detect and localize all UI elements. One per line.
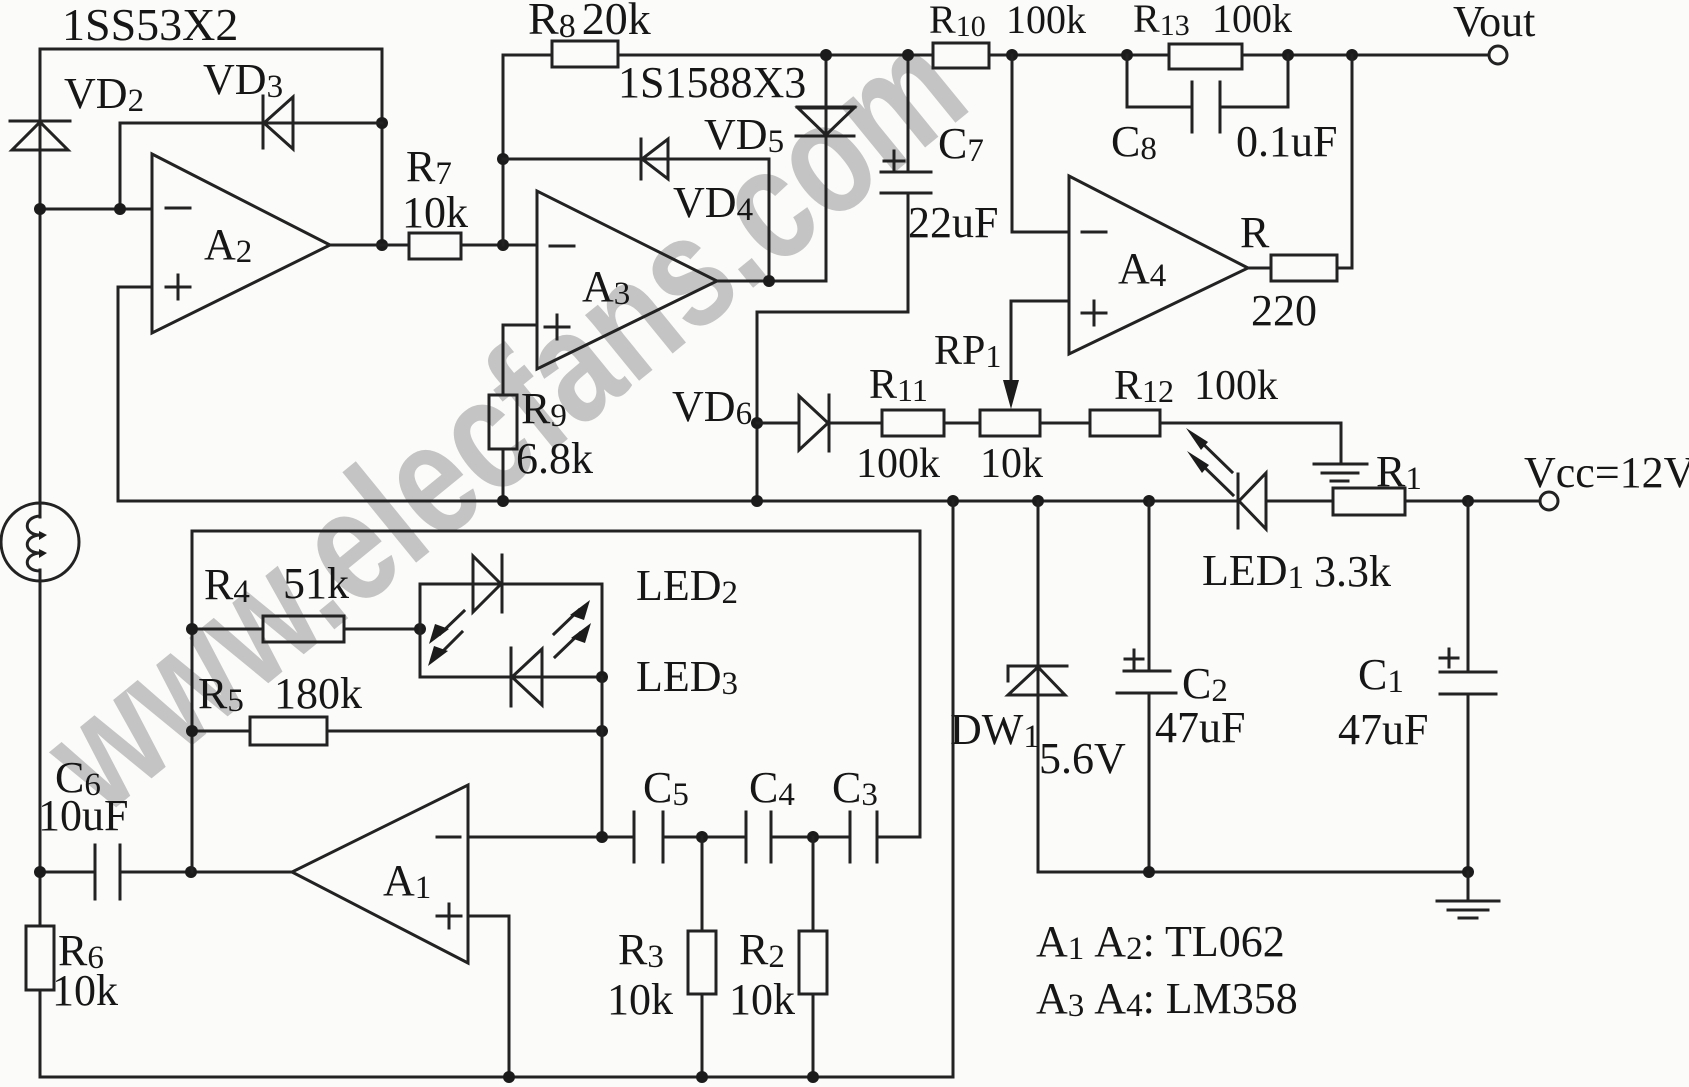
resistor R4 with wires xyxy=(192,559,420,642)
capacitor C1 xyxy=(1338,501,1496,872)
svg-text:3.3k: 3.3k xyxy=(1314,547,1391,596)
svg-text:180k: 180k xyxy=(274,669,362,718)
wire: A2 non-inverting input down to reference rail xyxy=(118,287,152,501)
capacitor C6 xyxy=(38,753,292,899)
wire: R9 to reference rail xyxy=(502,449,505,501)
wire: top feedback loop A2 xyxy=(40,49,382,245)
node: R3 bottom junction xyxy=(696,1071,708,1083)
resistor R2 with wires xyxy=(729,837,827,1077)
node: VD3 to A2- junction xyxy=(114,203,126,215)
wire: bottom return line xyxy=(40,1076,953,1079)
wire: top line R8 to R10 xyxy=(618,54,933,57)
node: C1 junction xyxy=(1462,495,1474,507)
diode VD5 with vertical wire xyxy=(796,55,855,281)
wire: analog ground line xyxy=(1038,871,1468,874)
zener DW1 xyxy=(950,501,1126,872)
svg-text:1S1588X3: 1S1588X3 xyxy=(618,58,806,107)
svg-text:10k: 10k xyxy=(729,975,795,1024)
wire: reference rail xyxy=(118,500,1238,503)
wire: VD3 branch xyxy=(120,123,382,209)
node: R5 left junction xyxy=(186,725,198,737)
capacitor C5 xyxy=(634,763,746,862)
svg-text:51k: 51k xyxy=(283,559,349,608)
node: feedback column to A1 junction xyxy=(185,866,197,878)
node: bottom return on rail xyxy=(947,495,959,507)
wire: R12 to ground stub xyxy=(1160,423,1341,464)
svg-text:100k: 100k xyxy=(1006,0,1086,42)
node: R2 bottom junction xyxy=(807,1071,819,1083)
svg-text:22uF: 22uF xyxy=(908,198,998,247)
wire: R13 to Vout xyxy=(1242,54,1489,57)
capacitor C7 xyxy=(757,55,998,312)
terminal Vcc=12V xyxy=(1524,448,1689,510)
node: R3 junction xyxy=(696,831,708,843)
node: R220 feedback junction xyxy=(1346,49,1358,61)
svg-text:10k: 10k xyxy=(402,188,468,237)
resistor R 220 xyxy=(1240,208,1337,335)
node: C5 junction with bridge column xyxy=(596,831,608,843)
svg-text:47uF: 47uF xyxy=(1338,705,1428,754)
svg-text:R: R xyxy=(1240,208,1270,257)
resistor R8 xyxy=(528,0,651,67)
wiper arrow of RP1 xyxy=(1003,380,1019,409)
wire: LED2/LED3 bridge frame xyxy=(420,584,602,677)
node: R4 right junction on LED frame xyxy=(414,623,426,635)
diode VD2 xyxy=(10,121,70,150)
ground at R12 xyxy=(1314,464,1367,481)
ground symbol main xyxy=(1437,872,1499,918)
node: C8 right junction xyxy=(1282,49,1294,61)
resistor R9 xyxy=(489,384,593,483)
node: R8/VD4 branch junction at A3 input xyxy=(497,239,509,251)
svg-text:10k: 10k xyxy=(980,441,1043,487)
svg-text:10uF: 10uF xyxy=(38,791,128,840)
op-amp A4 xyxy=(1069,176,1248,354)
node: R2 junction xyxy=(807,831,819,843)
node: VD6 anode junction xyxy=(751,417,763,429)
node: A3 output junction xyxy=(763,275,775,287)
node: DW1 on rail xyxy=(1032,495,1044,507)
node: A2 output junction xyxy=(376,239,388,251)
node: C2 on rail xyxy=(1143,495,1155,507)
wire: A4 output to R xyxy=(1248,267,1271,270)
resistor R3 with wires xyxy=(607,837,716,1077)
label LED1 3.3k xyxy=(1202,546,1391,596)
op-amp A1 xyxy=(292,785,468,963)
svg-text:1SS53X2: 1SS53X2 xyxy=(62,0,238,50)
resistor R11 xyxy=(856,362,944,487)
resistor R13 xyxy=(1133,0,1292,69)
node: C7 top junction xyxy=(902,49,914,61)
svg-text:10k: 10k xyxy=(52,966,118,1015)
svg-text:100k: 100k xyxy=(856,441,940,487)
svg-text:Vcc=12V: Vcc=12V xyxy=(1524,448,1689,497)
resistor R7 xyxy=(402,142,468,259)
svg-text:Vout: Vout xyxy=(1453,0,1535,46)
LED LED3 xyxy=(511,648,542,706)
wire: A4 inverting input branch xyxy=(1012,55,1069,232)
svg-text:220: 220 xyxy=(1251,286,1317,335)
wire: R8 left branch vertical xyxy=(503,55,552,245)
svg-text:0.1uF: 0.1uF xyxy=(1236,117,1337,166)
LED2 emission arrows xyxy=(428,611,464,666)
op-amp A3 xyxy=(537,191,717,369)
potentiometer RP1 xyxy=(934,328,1043,487)
wire: A3 non-inverting input to R9 xyxy=(503,325,537,395)
node: C1 ground junction xyxy=(1462,866,1474,878)
wire: R11 to RP1 xyxy=(944,422,980,425)
resistor R1 xyxy=(1333,447,1422,515)
node: R5 right junction xyxy=(596,725,608,737)
wire: R1 to Vcc xyxy=(1405,500,1540,503)
op-amp A2 xyxy=(152,154,330,333)
diode VD3 xyxy=(263,96,293,149)
wire: R to top feedback line xyxy=(1337,55,1352,268)
LED LED2 xyxy=(473,555,502,612)
node: A4 inverting branch junction xyxy=(1006,49,1018,61)
LED LED1 xyxy=(1238,473,1333,529)
LED1 emission arrows xyxy=(1186,428,1233,495)
sensor source (xi) xyxy=(1,503,79,581)
node: R9 on rail xyxy=(497,495,509,507)
wire: A2 inverting input xyxy=(40,208,152,211)
node: C2 ground junction xyxy=(1143,866,1155,878)
svg-text:47uF: 47uF xyxy=(1155,703,1245,752)
node: VD4 left junction xyxy=(497,153,509,165)
svg-text:10k: 10k xyxy=(607,975,673,1024)
node: VD5 top junction xyxy=(820,49,832,61)
node: C8 left junction xyxy=(1121,49,1133,61)
svg-text:R820k: R820k xyxy=(528,0,651,45)
wire: left vertical input rail xyxy=(39,49,42,1077)
diode VD4 with wire xyxy=(503,139,769,179)
wire: VD6 branch vertical xyxy=(756,312,759,501)
wire: RP1 to R12 xyxy=(1040,422,1090,425)
node: A1+ bottom junction xyxy=(503,1071,515,1083)
resistor R10 xyxy=(929,0,1086,68)
wire: A2 output xyxy=(330,244,409,247)
wire: R7 to A3 inverting input xyxy=(461,244,537,247)
wire: feedback network frame xyxy=(192,531,920,872)
LED3 emission arrows xyxy=(554,600,591,657)
wire: bridge to C5 node xyxy=(601,677,604,837)
wire: VD4 right down to A3 output xyxy=(768,159,771,281)
capacitor C2 xyxy=(1117,501,1245,872)
resistor R12 xyxy=(1090,363,1278,436)
node: VD6 branch on rail xyxy=(751,495,763,507)
node: R4 left junction xyxy=(186,623,198,635)
resistor R6 xyxy=(26,926,118,1015)
wire: A1 inverting input line xyxy=(468,836,634,839)
wire: A4 non-inverting input from RP1 wiper xyxy=(1011,301,1069,380)
node: sensor to C6 junction xyxy=(34,866,46,878)
terminal Vout xyxy=(1453,0,1535,64)
wire: R10 to R13 xyxy=(989,54,1169,57)
svg-text:100k: 100k xyxy=(1212,0,1292,41)
node: input node on left rail xyxy=(34,203,46,215)
wire: rail return to bottom xyxy=(952,501,955,1077)
capacitor C4 xyxy=(746,763,850,862)
diode VD6 with wires xyxy=(757,395,882,451)
capacitor C8 xyxy=(1111,55,1337,167)
wire: A3 output xyxy=(717,280,826,283)
node: LED3 right junction xyxy=(596,671,608,683)
wire: A1 non-inverting input to bottom line xyxy=(468,916,509,1077)
svg-text:5.6V: 5.6V xyxy=(1039,734,1126,783)
capacitor C3 xyxy=(832,763,920,862)
svg-text:100k: 100k xyxy=(1194,363,1278,409)
svg-text:6.8k: 6.8k xyxy=(516,434,593,483)
resistor R5 with wires xyxy=(192,669,602,745)
node: VD3 feedback junction top xyxy=(376,117,388,129)
